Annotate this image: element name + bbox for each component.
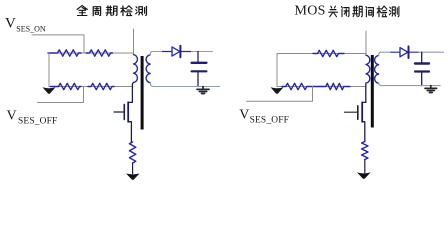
ground arrow A1 xyxy=(43,87,56,94)
svg-text:SES_OFF: SES_OFF xyxy=(18,116,57,126)
wire V_SES_ON lead xyxy=(32,35,84,53)
resistor R4 xyxy=(88,83,114,89)
resistor R9 (sense) xyxy=(362,142,368,160)
resistor R1 xyxy=(48,50,81,56)
transformer T1 secondary winding xyxy=(146,55,150,83)
wire secondary top rail xyxy=(152,51,213,53)
wire row1 (right) xyxy=(277,53,366,55)
transformer T1 core xyxy=(141,56,144,130)
wire primary input (right) xyxy=(365,31,367,55)
wire V_SES_OFF lead (right) xyxy=(247,87,313,102)
svg-text:V: V xyxy=(7,109,17,124)
ground arrow A2 xyxy=(126,173,140,179)
title MOS关闭期间检测 (right) xyxy=(295,4,399,19)
ground arrow A3 xyxy=(271,87,284,94)
transistor Q1 xyxy=(114,102,132,142)
svg-text:V: V xyxy=(239,108,249,123)
capacitor C1 xyxy=(192,52,207,87)
wire resistor to ground xyxy=(132,163,134,174)
wire row2 (right) xyxy=(277,86,366,88)
transistor Q2 xyxy=(345,102,366,141)
transformer T2 core xyxy=(371,55,374,128)
svg-text:SES_OFF: SES_OFF xyxy=(250,115,289,125)
title 全周期检测 (left) xyxy=(77,5,146,15)
node V_SES_OFF label xyxy=(7,109,58,127)
diode D1 xyxy=(172,46,180,58)
node V_SES_ON label xyxy=(5,16,46,34)
ground earth G1 xyxy=(197,87,209,94)
wire primary input xyxy=(133,29,135,55)
wire V_SES_OFF lead xyxy=(38,87,84,103)
wire resistor to ground (right) xyxy=(364,160,366,173)
wire secondary top rail (right) xyxy=(380,51,443,53)
node V_SES_OFF label (right) xyxy=(239,108,289,126)
ground arrow A4 xyxy=(357,172,371,178)
svg-text:MOS: MOS xyxy=(295,4,326,19)
transformer T1 primary winding xyxy=(134,55,138,83)
wire left column (right) xyxy=(276,54,278,87)
svg-text:SES_ON: SES_ON xyxy=(16,24,46,33)
wire secondary bottom rail (right) xyxy=(381,85,440,87)
wire row1 left xyxy=(49,52,134,54)
resistor R7 xyxy=(282,83,322,89)
resistor R5 (sense) xyxy=(129,142,135,163)
wire drain (right) xyxy=(365,83,367,102)
diode D2 xyxy=(400,46,409,58)
wire row2 left xyxy=(49,86,133,88)
resistor R3 xyxy=(51,83,82,89)
svg-text:V: V xyxy=(5,16,16,32)
resistor R6 xyxy=(313,50,344,56)
resistor R8 xyxy=(322,83,350,89)
resistor R2 xyxy=(86,50,113,56)
transformer T2 primary winding xyxy=(366,55,370,83)
capacitor C2 xyxy=(415,52,429,85)
wire drain (primary bottom to Q1) xyxy=(132,83,133,103)
wire secondary bottom rail xyxy=(153,86,220,88)
ground earth G2 xyxy=(425,86,437,93)
transformer T2 secondary winding xyxy=(375,55,379,83)
wire left column xyxy=(48,53,50,87)
